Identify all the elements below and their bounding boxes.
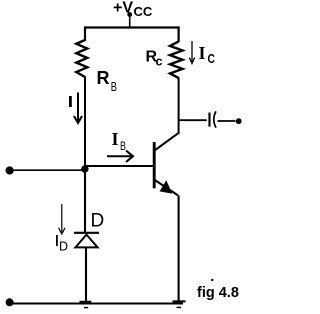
svg-text:R: R [97,68,110,88]
svg-text:fig 4.8: fig 4.8 [197,285,239,301]
svg-text:c: c [156,55,163,69]
svg-text:I: I [112,129,119,149]
svg-text:+V: +V [113,0,133,17]
svg-text:D: D [59,240,68,254]
svg-text:C: C [208,51,216,66]
svg-text:B: B [111,80,117,94]
svg-text:CC: CC [134,4,153,19]
svg-text:B: B [120,141,126,153]
svg-text:D: D [91,211,105,232]
svg-text:I: I [199,43,206,63]
